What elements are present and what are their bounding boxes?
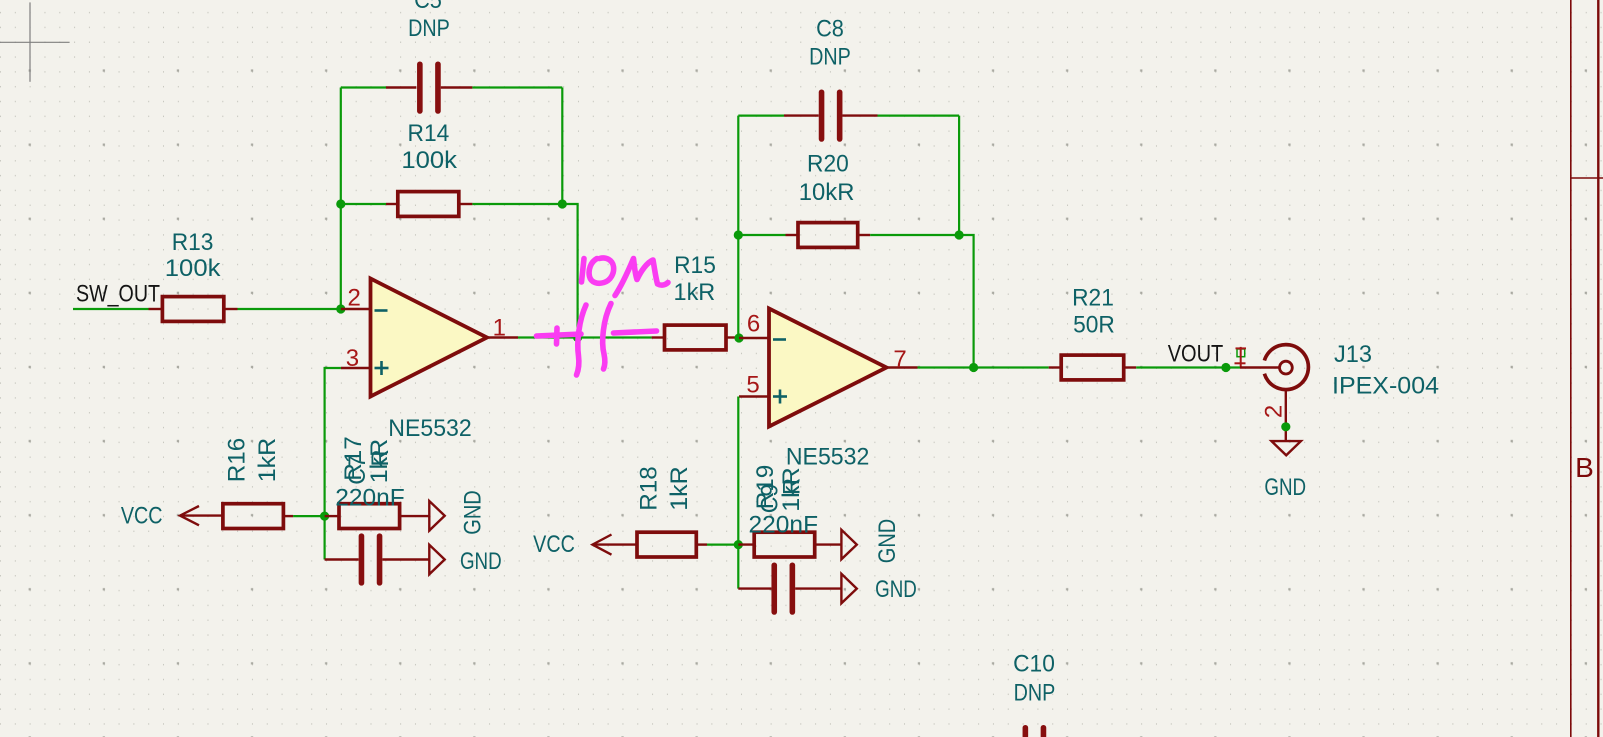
pin 3 stub xyxy=(341,367,371,369)
resistor R16 xyxy=(223,504,293,529)
svg-text:R: R xyxy=(779,478,806,495)
wire C8 left vertical xyxy=(737,116,739,338)
junction output1 feedback xyxy=(573,333,582,342)
svg-text:DNP: DNP xyxy=(1014,679,1056,706)
svg-text:R20: R20 xyxy=(807,150,849,177)
svg-text:10kR: 10kR xyxy=(799,179,855,206)
ground symbol J13 xyxy=(1272,433,1301,456)
svg-text:VCC: VCC xyxy=(533,531,575,558)
wire op-amp2 output xyxy=(918,366,1049,368)
svg-text:DNP: DNP xyxy=(809,44,851,71)
capacitor C8 xyxy=(784,89,878,141)
junction J13 ground xyxy=(1281,422,1290,431)
resistor R14 xyxy=(386,192,472,217)
junction R14 right xyxy=(558,199,567,208)
sheet border right xyxy=(1571,0,1603,737)
wire C8 row right xyxy=(878,114,960,116)
wire R20 row right xyxy=(870,235,973,368)
wire C5 row left xyxy=(341,86,386,88)
svg-text:R15: R15 xyxy=(674,252,716,279)
svg-text:50R: 50R xyxy=(1073,311,1115,338)
junction R20 right xyxy=(955,230,964,239)
svg-text:VOUT: VOUT xyxy=(1168,341,1224,368)
svg-text:C8: C8 xyxy=(816,16,844,43)
ground symbol (R19) xyxy=(841,530,856,560)
resistor R15 xyxy=(652,325,739,350)
svg-text:3: 3 xyxy=(346,345,359,372)
svg-text:NE5532: NE5532 xyxy=(786,444,869,471)
svg-text:J13: J13 xyxy=(1334,341,1372,368)
power symbol VCC (stage 1) xyxy=(180,506,223,525)
svg-text:C10: C10 xyxy=(1013,650,1055,677)
svg-text:2: 2 xyxy=(1261,405,1288,418)
capacitor C7 xyxy=(325,533,430,585)
wire SW_OUT input xyxy=(73,308,149,310)
svg-text:C5: C5 xyxy=(414,0,442,14)
wire C5 row right xyxy=(472,86,562,88)
ground symbol (C9) xyxy=(841,574,856,604)
svg-text:1kR: 1kR xyxy=(666,466,693,511)
svg-text:R21: R21 xyxy=(1072,284,1114,311)
svg-text:IPEX-004: IPEX-004 xyxy=(1332,373,1439,400)
junction R14 left xyxy=(336,199,345,208)
svg-text:SW_OUT: SW_OUT xyxy=(76,281,160,308)
junction output2 feedback xyxy=(969,363,978,372)
svg-text:R18: R18 xyxy=(635,466,662,511)
wire C8 right vertical xyxy=(958,116,960,235)
resistor R21 xyxy=(1049,355,1137,380)
svg-text:GND: GND xyxy=(460,548,502,575)
svg-text:7: 7 xyxy=(893,346,906,373)
wire R14 row left xyxy=(341,203,386,205)
svg-text:1kR: 1kR xyxy=(254,438,281,483)
svg-text:VCC: VCC xyxy=(121,503,163,530)
origin crosshair xyxy=(0,2,70,81)
capacitor C10 (cut off) xyxy=(1023,725,1047,737)
ground symbol (R17) xyxy=(429,501,444,531)
op-amp U2 NE5532 xyxy=(769,309,887,427)
wire R21 to J13 xyxy=(1136,366,1240,368)
svg-text:1kR: 1kR xyxy=(674,279,716,306)
svg-text:220nF: 220nF xyxy=(335,485,405,512)
wire pin3 to lower net xyxy=(325,368,341,560)
resistor R20 xyxy=(786,223,871,248)
svg-text:220nF: 220nF xyxy=(749,512,819,539)
wire pin5 down xyxy=(737,397,739,589)
svg-text:R13: R13 xyxy=(172,229,214,256)
svg-text:6: 6 xyxy=(747,311,760,338)
svg-text:2: 2 xyxy=(348,285,361,312)
svg-text:100k: 100k xyxy=(165,255,222,282)
power symbol VCC (stage 2) xyxy=(593,535,638,555)
pin 2 stub xyxy=(341,308,371,310)
svg-text:GND: GND xyxy=(1264,474,1306,501)
resistor R19 xyxy=(738,532,841,557)
wire feedback left vertical xyxy=(340,88,342,310)
op-amp U1 NE5532 xyxy=(371,279,488,397)
capacitor C9 xyxy=(738,562,841,614)
pin 6 stub xyxy=(739,337,769,339)
svg-text:B: B xyxy=(1575,452,1594,483)
wire R18 to junction xyxy=(707,543,738,545)
junction VOUT xyxy=(1221,363,1230,372)
pin 1 stub xyxy=(487,336,518,338)
resistor R18 xyxy=(637,532,707,557)
svg-text:1: 1 xyxy=(493,315,506,342)
junction op-amp2 inverting input xyxy=(734,333,743,342)
wire R13 to op-amp xyxy=(238,308,341,310)
svg-text:GND: GND xyxy=(874,519,901,564)
svg-text:GND: GND xyxy=(460,490,487,535)
svg-text:R: R xyxy=(367,449,394,466)
ground symbol (C7) xyxy=(429,545,444,575)
junction op-amp1 inverting input xyxy=(336,304,345,313)
pin 7 stub xyxy=(887,366,918,368)
svg-text:R14: R14 xyxy=(408,120,450,147)
junction VCC net stage 1 xyxy=(320,511,329,520)
wire R14 row right xyxy=(472,204,577,338)
junction VCC net stage 2 xyxy=(734,540,743,549)
svg-text:NE5532: NE5532 xyxy=(388,415,471,442)
resistor R13 xyxy=(149,297,238,322)
wire R16 to junction xyxy=(293,515,325,517)
resistor R17 xyxy=(325,504,430,529)
svg-text:DNP: DNP xyxy=(408,15,450,42)
wire R20 row left xyxy=(738,234,785,236)
capacitor C5 xyxy=(386,62,472,114)
handwritten annotation 10u capacitor xyxy=(537,258,669,375)
svg-text:R16: R16 xyxy=(224,438,251,483)
connector J13 coax xyxy=(1240,345,1308,433)
svg-text:100k: 100k xyxy=(401,147,458,174)
pin 1 marker J13 xyxy=(1235,347,1247,367)
wire C5 right vertical xyxy=(561,88,563,205)
svg-text:GND: GND xyxy=(875,576,917,603)
svg-text:5: 5 xyxy=(746,372,759,399)
junction R20 left xyxy=(734,230,743,239)
pin 5 stub xyxy=(739,395,769,397)
wire C8 row left xyxy=(738,114,784,116)
wire op-amp1 output xyxy=(518,336,652,338)
